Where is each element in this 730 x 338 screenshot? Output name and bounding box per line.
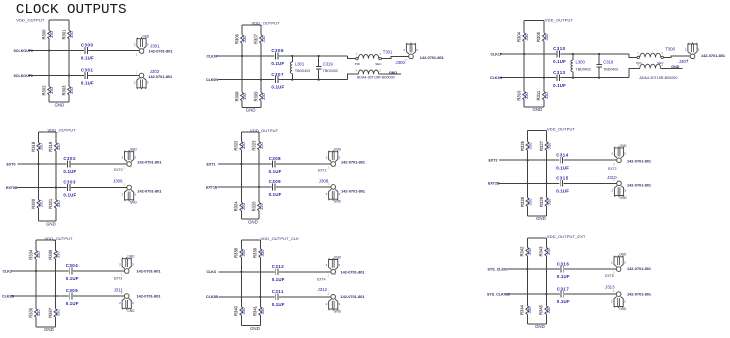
svg-text:0.1UF: 0.1UF — [553, 83, 566, 88]
svg-text:J313: J313 — [605, 285, 615, 290]
resistor R341 — [252, 305, 265, 316]
svg-text:330: 330 — [547, 198, 552, 206]
wire — [218, 55, 348, 57]
svg-text:C315: C315 — [556, 176, 569, 181]
connector J308 — [319, 178, 366, 203]
svg-text:R322: R322 — [234, 140, 239, 151]
svg-text:1: 1 — [136, 53, 138, 57]
junction — [572, 77, 574, 79]
wire — [218, 79, 348, 81]
junction — [523, 53, 525, 55]
resistor R340 — [233, 305, 246, 316]
svg-text:2: 2 — [326, 155, 328, 159]
connector J313 — [605, 285, 652, 311]
svg-text:EXT1B: EXT1B — [206, 185, 218, 189]
svg-text:330: 330 — [242, 35, 247, 43]
svg-text:GND: GND — [536, 216, 546, 221]
svg-text:EXT0: EXT0 — [114, 168, 123, 172]
svg-text:142-0701-801: 142-0701-801 — [137, 268, 162, 273]
junction — [291, 55, 293, 57]
connector J307 — [679, 42, 726, 64]
svg-text:3: 3 — [624, 152, 626, 156]
svg-text:GND: GND — [130, 200, 138, 204]
svg-text:3: 3 — [416, 48, 418, 52]
wire — [18, 163, 127, 165]
svg-text:R335: R335 — [48, 249, 53, 260]
svg-text:330: 330 — [524, 91, 529, 99]
svg-text:142-0701-801: 142-0701-801 — [341, 159, 366, 164]
svg-text:330: 330 — [56, 143, 61, 151]
svg-text:1: 1 — [136, 70, 138, 74]
svg-text:R307: R307 — [253, 33, 258, 44]
svg-text:TBD0402: TBD0402 — [323, 69, 338, 73]
svg-text:R301: R301 — [61, 29, 66, 40]
resistor R309 — [253, 91, 266, 102]
svg-text:T301: T301 — [383, 49, 393, 54]
svg-text:3: 3 — [132, 301, 134, 305]
capacitor C300 — [81, 43, 94, 61]
svg-text:330: 330 — [49, 30, 54, 38]
svg-text:1: 1 — [123, 166, 125, 170]
svg-text:VDD_OUTPUT: VDD_OUTPUT — [48, 128, 77, 133]
connector J311 — [114, 287, 162, 313]
svg-text:330: 330 — [527, 306, 532, 314]
svg-text:R326: R326 — [520, 140, 525, 151]
svg-text:TBD0403: TBD0403 — [295, 69, 310, 73]
connector J306 — [113, 178, 162, 204]
junction — [572, 53, 574, 55]
junction — [48, 49, 50, 51]
connector J314 — [611, 144, 651, 166]
capacitor C316 — [557, 261, 570, 279]
svg-text:GND: GND — [620, 144, 628, 148]
svg-text:ADA4-30T15R-B00000: ADA4-30T15R-B00000 — [357, 75, 396, 80]
svg-text:C301: C301 — [81, 68, 94, 73]
svg-text:2: 2 — [611, 152, 613, 156]
svg-text:R306: R306 — [234, 33, 239, 44]
svg-text:VDD_OUTPUT: VDD_OUTPUT — [16, 17, 45, 22]
svg-text:C318: C318 — [603, 59, 614, 64]
capacitor C308 — [269, 156, 282, 174]
svg-text:J307: J307 — [679, 59, 689, 64]
svg-text:PRI: PRI — [636, 61, 641, 65]
svg-text:2: 2 — [611, 189, 613, 193]
svg-text:330: 330 — [49, 86, 54, 94]
svg-text:0.1UF: 0.1UF — [81, 56, 94, 61]
svg-text:R340: R340 — [234, 305, 239, 316]
svg-text:GND: GND — [55, 103, 65, 108]
wire — [499, 159, 617, 161]
svg-text:0.1UF: 0.1UF — [66, 301, 79, 306]
svg-text:R323: R323 — [251, 140, 256, 151]
svg-text:2: 2 — [119, 262, 121, 266]
svg-text:0.1UF: 0.1UF — [557, 274, 570, 279]
svg-text:J311: J311 — [114, 287, 124, 292]
junction — [318, 55, 320, 57]
capacitor C319 — [316, 56, 338, 80]
svg-text:3: 3 — [379, 52, 381, 56]
resistor R301 — [61, 29, 74, 40]
capacitor C311 — [272, 289, 285, 307]
svg-text:J312: J312 — [318, 287, 328, 292]
junction — [258, 186, 260, 188]
svg-text:R321: R321 — [48, 198, 53, 209]
svg-text:330: 330 — [56, 200, 61, 208]
wire — [28, 50, 139, 52]
junction — [54, 295, 56, 297]
svg-text:3: 3 — [661, 51, 663, 55]
svg-text:VDD_OUTPUT_EXT: VDD_OUTPUT_EXT — [547, 234, 586, 239]
svg-text:0.1UF: 0.1UF — [556, 165, 569, 170]
resistor R328 — [519, 196, 532, 207]
svg-text:330: 330 — [69, 30, 74, 38]
svg-text:R308: R308 — [234, 91, 239, 102]
svg-text:142-0701-801: 142-0701-801 — [627, 182, 652, 187]
resistor R337 — [47, 307, 60, 318]
junction — [546, 182, 548, 184]
svg-text:330: 330 — [527, 247, 532, 255]
junction — [259, 296, 261, 298]
svg-text:330: 330 — [241, 141, 246, 149]
capacitor C301 — [81, 68, 94, 86]
svg-text:330: 330 — [546, 247, 551, 255]
svg-text:C305: C305 — [66, 288, 79, 293]
svg-text:R328: R328 — [520, 196, 525, 207]
svg-text:142-0701-801: 142-0701-801 — [341, 189, 366, 194]
svg-text:GND: GND — [246, 108, 256, 113]
svg-text:142-0701-801: 142-0701-801 — [137, 188, 162, 193]
transformer T301 — [355, 49, 396, 79]
termination rails — [241, 240, 260, 325]
svg-text:5: 5 — [694, 56, 696, 60]
svg-text:5: 5 — [334, 164, 336, 168]
svg-text:GND: GND — [334, 310, 342, 314]
resistor R304 — [516, 31, 529, 42]
svg-text:VDD_OUTPUT: VDD_OUTPUT — [252, 20, 281, 25]
wire — [11, 295, 124, 297]
wire — [508, 268, 616, 270]
svg-text:C306: C306 — [271, 48, 284, 53]
svg-text:1: 1 — [405, 58, 407, 62]
capacitor C318 — [596, 54, 618, 78]
svg-text:2: 2 — [326, 263, 328, 267]
resistor R323 — [251, 140, 264, 151]
svg-text:SEC: SEC — [657, 61, 664, 65]
svg-text:2: 2 — [379, 69, 381, 73]
resistor R326 — [519, 140, 532, 151]
svg-text:0.1UF: 0.1UF — [272, 277, 285, 282]
svg-text:C312: C312 — [272, 264, 285, 269]
svg-text:C307: C307 — [271, 72, 284, 77]
svg-text:142-0701-801: 142-0701-801 — [137, 293, 162, 298]
connector J310 — [607, 175, 652, 200]
svg-text:R336: R336 — [28, 307, 33, 318]
svg-text:330: 330 — [241, 249, 246, 257]
junction — [68, 74, 70, 76]
svg-text:T300: T300 — [665, 47, 675, 52]
svg-text:R300: R300 — [42, 29, 47, 40]
wire — [379, 73, 401, 75]
wire — [629, 68, 640, 77]
svg-text:R303: R303 — [61, 85, 66, 96]
svg-text:2: 2 — [326, 192, 328, 196]
termination rails — [49, 20, 69, 102]
svg-text:R344: R344 — [520, 304, 525, 315]
svg-text:R345: R345 — [539, 304, 544, 315]
wire — [219, 296, 331, 298]
svg-text:R318: R318 — [31, 141, 36, 152]
svg-text:C310: C310 — [553, 46, 566, 51]
capacitor C312 — [272, 264, 285, 282]
svg-text:R311: R311 — [536, 90, 541, 100]
connector J316 — [326, 255, 366, 277]
inductor L300 — [570, 54, 591, 78]
svg-text:4: 4 — [356, 69, 358, 73]
svg-text:C317: C317 — [557, 286, 570, 291]
svg-text:330: 330 — [547, 142, 552, 150]
svg-text:CLK3B: CLK3B — [206, 295, 218, 299]
capacitor C317 — [557, 286, 570, 304]
svg-text:5: 5 — [334, 272, 336, 276]
svg-text:1: 1 — [327, 166, 329, 170]
svg-text:VDD_OUTPUT: VDD_OUTPUT — [545, 17, 574, 22]
svg-text:R329: R329 — [539, 196, 544, 207]
svg-text:R342: R342 — [520, 246, 525, 257]
svg-text:330: 330 — [546, 306, 551, 314]
svg-text:0.1UF: 0.1UF — [271, 85, 284, 90]
svg-text:J310: J310 — [607, 175, 617, 180]
svg-text:3: 3 — [134, 155, 136, 159]
svg-text:GND: GND — [389, 71, 397, 75]
resistor R302 — [41, 85, 54, 96]
svg-text:R310: R310 — [517, 90, 522, 101]
svg-text:GND: GND — [334, 148, 342, 152]
svg-text:C300: C300 — [81, 43, 94, 48]
capacitor C307 — [271, 72, 284, 90]
svg-text:2: 2 — [611, 299, 613, 303]
svg-text:C311: C311 — [272, 289, 284, 294]
capacitor C305 — [66, 288, 79, 306]
svg-text:SEC: SEC — [375, 62, 382, 66]
junction — [291, 79, 293, 81]
svg-text:330: 330 — [259, 202, 264, 210]
resistor R322 — [233, 140, 246, 151]
svg-text:C304: C304 — [66, 263, 79, 268]
svg-text:330: 330 — [242, 92, 247, 100]
junction — [545, 293, 547, 295]
termination rails — [36, 240, 56, 327]
svg-text:GND: GND — [334, 200, 342, 204]
termination rails — [528, 131, 547, 216]
svg-text:5: 5 — [620, 269, 622, 273]
svg-text:1: 1 — [356, 52, 358, 56]
svg-text:EXT1: EXT1 — [207, 162, 216, 166]
wire — [218, 186, 331, 188]
resistor R343 — [538, 246, 551, 257]
svg-text:C309: C309 — [269, 179, 282, 184]
svg-text:330: 330 — [259, 141, 264, 149]
svg-text:3: 3 — [132, 262, 134, 266]
svg-text:5: 5 — [143, 51, 145, 55]
svg-text:R337: R337 — [48, 307, 53, 318]
svg-text:330: 330 — [524, 33, 529, 41]
junction — [55, 186, 57, 188]
svg-text:L301: L301 — [295, 61, 305, 66]
resistor R306 — [234, 33, 247, 44]
wire — [508, 293, 616, 295]
junction — [526, 268, 528, 270]
svg-text:EXT0B: EXT0B — [6, 186, 18, 190]
svg-text:R320: R320 — [31, 198, 36, 209]
svg-text:0.1UF: 0.1UF — [63, 169, 76, 174]
svg-text:L300: L300 — [576, 59, 586, 64]
capacitor C313 — [553, 70, 566, 88]
svg-text:R327: R327 — [539, 140, 544, 151]
junction — [241, 55, 243, 57]
svg-text:3: 3 — [624, 261, 626, 265]
resistor R310 — [516, 90, 529, 101]
svg-text:330: 330 — [260, 307, 265, 315]
termination rails — [527, 238, 546, 324]
svg-text:CLK0N: CLK0N — [206, 78, 218, 82]
svg-text:C314: C314 — [556, 152, 569, 157]
svg-text:142-0701-801: 142-0701-801 — [627, 291, 652, 296]
wire — [219, 271, 331, 273]
svg-text:GND: GND — [619, 253, 627, 257]
svg-text:R338: R338 — [234, 247, 239, 258]
wire — [28, 75, 139, 77]
svg-text:R319: R319 — [48, 141, 53, 152]
svg-text:330: 330 — [38, 200, 43, 208]
svg-text:CLK2B: CLK2B — [2, 294, 14, 298]
resistor R308 — [234, 91, 247, 102]
junction — [260, 79, 262, 81]
svg-text:1: 1 — [123, 182, 125, 186]
svg-text:2: 2 — [134, 42, 136, 46]
svg-text:EXT5: EXT5 — [605, 274, 614, 278]
resistor R303 — [61, 85, 74, 96]
resistor R339 — [252, 247, 265, 258]
capacitor C310 — [553, 46, 566, 64]
svg-text:0.1UF: 0.1UF — [81, 81, 94, 86]
wire — [348, 74, 359, 79]
junction — [543, 77, 545, 79]
svg-text:J306: J306 — [113, 178, 123, 183]
svg-text:ADA4-30T15R-B00000: ADA4-30T15R-B00000 — [639, 75, 678, 80]
svg-text:0.1UF: 0.1UF — [66, 276, 79, 281]
svg-text:330: 330 — [241, 307, 246, 315]
svg-text:2: 2 — [611, 261, 613, 265]
svg-text:5: 5 — [130, 164, 132, 168]
svg-text:GND: GND — [127, 309, 135, 313]
wire — [499, 182, 617, 184]
termination rails — [242, 25, 261, 108]
svg-text:2: 2 — [122, 193, 124, 197]
svg-text:EXT2: EXT2 — [608, 167, 617, 171]
capacitor C315 — [556, 176, 569, 194]
svg-text:GND: GND — [44, 327, 54, 332]
svg-text:330: 330 — [241, 202, 246, 210]
svg-text:C302: C302 — [63, 156, 76, 161]
resistor R321 — [48, 198, 61, 209]
svg-text:330: 330 — [36, 309, 41, 317]
svg-text:0.1UF: 0.1UF — [269, 192, 282, 197]
svg-text:PRI: PRI — [355, 62, 360, 66]
svg-text:142-0701-801: 142-0701-801 — [701, 53, 726, 58]
svg-text:330: 330 — [36, 251, 41, 259]
resistor R307 — [253, 33, 266, 44]
svg-text:R302: R302 — [42, 85, 47, 96]
resistor R318 — [30, 141, 43, 152]
svg-text:3: 3 — [147, 42, 149, 46]
resistor R344 — [519, 304, 532, 315]
resistor R300 — [41, 29, 54, 40]
svg-text:330: 330 — [260, 249, 265, 257]
svg-text:0.1UF: 0.1UF — [553, 59, 566, 64]
wire — [381, 56, 408, 58]
svg-text:2: 2 — [134, 81, 136, 85]
svg-text:CLK2: CLK2 — [3, 269, 12, 273]
wire — [629, 54, 637, 57]
connector J300 — [395, 43, 444, 66]
svg-text:VDD_OUTPUT: VDD_OUTPUT — [547, 126, 576, 131]
capacitor C309 — [269, 179, 282, 197]
capacitor C303 — [63, 180, 76, 198]
wire — [663, 56, 690, 57]
resistor R311 — [536, 90, 549, 100]
svg-text:330: 330 — [69, 86, 74, 94]
svg-text:R334: R334 — [28, 249, 33, 260]
svg-text:C316: C316 — [557, 261, 570, 266]
connector J302 — [134, 69, 173, 89]
svg-text:VDD_OUTPUT_CLK: VDD_OUTPUT_CLK — [261, 236, 300, 241]
svg-text:CLK0P: CLK0P — [207, 54, 219, 58]
svg-text:0.1UF: 0.1UF — [63, 193, 76, 198]
wire — [348, 56, 356, 59]
wire — [18, 187, 127, 189]
junction — [35, 270, 37, 272]
svg-text:3: 3 — [698, 48, 700, 52]
svg-text:EXT0: EXT0 — [7, 162, 16, 166]
svg-text:C319: C319 — [323, 61, 334, 66]
svg-text:GND: GND — [130, 148, 138, 152]
svg-text:3: 3 — [339, 302, 341, 306]
svg-text:SCLKOUT0: SCLKOUT0 — [14, 49, 33, 53]
resistor R324 — [233, 201, 246, 212]
connector J309 — [326, 148, 366, 170]
svg-text:330: 330 — [261, 35, 266, 43]
junction — [37, 163, 39, 165]
connector J312 — [318, 287, 366, 314]
svg-text:CLK1P: CLK1P — [491, 52, 503, 56]
svg-text:GND: GND — [334, 255, 342, 259]
svg-text:330: 330 — [55, 309, 60, 317]
svg-text:330: 330 — [38, 143, 43, 151]
svg-text:R304: R304 — [517, 31, 522, 42]
svg-text:R339: R339 — [253, 247, 258, 258]
svg-text:1: 1 — [613, 162, 615, 166]
svg-text:5: 5 — [412, 56, 414, 60]
svg-text:R309: R309 — [253, 91, 258, 102]
svg-text:GND: GND — [535, 324, 545, 329]
svg-text:142-0701-801: 142-0701-801 — [341, 294, 366, 299]
svg-text:142-0701-801: 142-0701-801 — [341, 269, 366, 274]
svg-text:142-0701-801: 142-0701-801 — [420, 55, 445, 60]
svg-text:2: 2 — [119, 301, 121, 305]
svg-text:EXT2B: EXT2B — [488, 182, 500, 186]
svg-text:C313: C313 — [553, 70, 566, 75]
resistor R320 — [30, 198, 43, 209]
